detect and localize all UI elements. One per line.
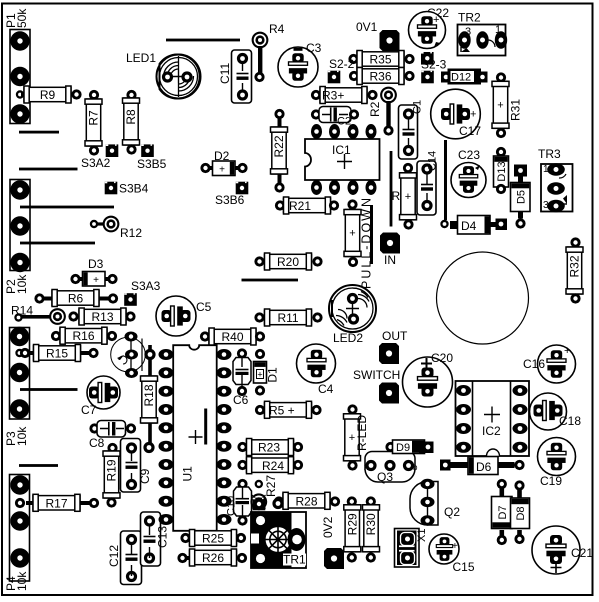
svg-text:TR2: TR2 xyxy=(458,11,481,25)
svg-text:D12: D12 xyxy=(451,72,471,84)
svg-text:C16: C16 xyxy=(523,357,545,371)
svg-text:R-LED: R-LED xyxy=(355,415,369,451)
resistor R28 xyxy=(274,492,340,509)
terminal 0V1 xyxy=(356,20,400,54)
wire link R2 xyxy=(368,87,397,136)
capacitor C22 xyxy=(409,6,450,49)
svg-text:SWITCH: SWITCH xyxy=(353,368,400,382)
capacitor C6 xyxy=(233,348,251,407)
capacitor C13 xyxy=(141,512,170,566)
capacitor C16 xyxy=(523,345,576,383)
IC U1 xyxy=(159,345,232,531)
capacitor C15 xyxy=(429,534,475,574)
big blank circle xyxy=(437,252,529,344)
diode D5 xyxy=(511,165,531,229)
svg-text:R: R xyxy=(392,189,401,203)
svg-text:D7: D7 xyxy=(497,505,509,519)
resistor R23 xyxy=(237,439,303,456)
IC IC1 xyxy=(305,124,380,195)
potentiometer P1 xyxy=(4,8,30,124)
potentiometer P3 xyxy=(4,327,30,446)
svg-text:C14: C14 xyxy=(427,151,439,171)
capacitor C21 xyxy=(532,526,593,574)
svg-text:LED2: LED2 xyxy=(333,331,363,345)
svg-text:OUT: OUT xyxy=(382,329,408,343)
capacitor C20 xyxy=(403,351,454,407)
capacitor C9 xyxy=(121,439,153,493)
svg-text:R17: R17 xyxy=(45,497,67,511)
capacitor C18 xyxy=(530,393,582,430)
svg-text:C4: C4 xyxy=(318,382,334,396)
resistor R15 xyxy=(20,345,99,362)
transistor Q1 xyxy=(111,332,146,379)
svg-text:C1: C1 xyxy=(412,100,424,114)
svg-text:R20: R20 xyxy=(277,255,299,269)
svg-text:S3B4: S3B4 xyxy=(119,182,149,196)
svg-text:C2: C2 xyxy=(337,116,351,128)
capacitor C17 xyxy=(431,89,482,139)
svg-text:+: + xyxy=(257,370,262,380)
diode D9 xyxy=(385,440,433,454)
svg-text:R29: R29 xyxy=(345,513,359,535)
trimmer pad R27 xyxy=(250,475,278,511)
transistor Q2 xyxy=(410,479,460,526)
svg-text:TR1: TR1 xyxy=(283,553,306,567)
svg-text:R9: R9 xyxy=(40,88,56,102)
svg-text:R22: R22 xyxy=(272,135,286,157)
resistor R9 xyxy=(21,86,82,103)
transistor TR2 xyxy=(458,11,508,56)
svg-text:IN: IN xyxy=(384,253,396,267)
svg-text:R13: R13 xyxy=(91,310,113,324)
resistor R8 xyxy=(123,90,140,155)
svg-text:b: b xyxy=(413,463,418,472)
svg-text:Q2: Q2 xyxy=(444,505,460,519)
diode D6 xyxy=(440,457,525,475)
diode D12 xyxy=(441,69,488,85)
wire below P1 xyxy=(19,131,59,134)
svg-text:R16: R16 xyxy=(72,329,94,343)
svg-text:IC2: IC2 xyxy=(482,424,501,438)
resistor R3 xyxy=(311,87,378,104)
svg-text:R5 +: R5 + xyxy=(269,404,295,418)
svg-text:S2-2: S2-2 xyxy=(329,57,355,71)
svg-text:C8: C8 xyxy=(89,436,105,450)
trimmer pad R12 xyxy=(90,216,143,240)
resistor R18 xyxy=(141,345,158,453)
svg-text:C18: C18 xyxy=(559,414,581,428)
svg-text:R25: R25 xyxy=(202,532,224,546)
svg-text:C20: C20 xyxy=(431,351,453,365)
svg-text:R21: R21 xyxy=(289,199,311,213)
svg-text:+: + xyxy=(470,109,476,121)
resistor R1 xyxy=(392,163,417,230)
svg-text:U1: U1 xyxy=(181,466,195,482)
wire from P2 mid xyxy=(20,242,95,245)
wire from P3 xyxy=(20,388,78,391)
svg-text:C19: C19 xyxy=(540,474,562,488)
resistor R31 xyxy=(492,72,523,138)
capacitor C2 xyxy=(311,107,359,128)
svg-text:R7: R7 xyxy=(87,110,101,126)
transistor TR3 xyxy=(538,147,573,212)
diode D3 xyxy=(70,257,117,286)
svg-text:D8: D8 xyxy=(515,506,527,520)
svg-text:S2-3: S2-3 xyxy=(421,58,447,72)
svg-text:0V1: 0V1 xyxy=(356,20,378,34)
capacitor C7 xyxy=(81,376,120,417)
LED LED1 xyxy=(126,51,201,99)
svg-text:R15: R15 xyxy=(46,347,68,361)
svg-text:C5: C5 xyxy=(196,300,212,314)
svg-text:R8: R8 xyxy=(124,109,138,125)
svg-text:D3: D3 xyxy=(88,257,104,271)
svg-text:+: + xyxy=(349,228,355,240)
diode D1 xyxy=(254,349,280,396)
svg-text:D13: D13 xyxy=(496,161,508,181)
svg-text:S3B5: S3B5 xyxy=(137,157,167,171)
svg-text:3: 3 xyxy=(543,200,549,211)
wire from P2 top xyxy=(20,206,114,209)
svg-text:R24: R24 xyxy=(262,459,284,473)
svg-text:Q3: Q3 xyxy=(377,470,393,484)
IC IC2 xyxy=(456,381,530,456)
capacitor C14 xyxy=(417,151,439,215)
terminal OUT xyxy=(379,329,408,367)
svg-text:+: + xyxy=(405,191,411,203)
svg-text:C3: C3 xyxy=(306,41,322,55)
svg-text:+: + xyxy=(497,100,503,112)
resistor R6 xyxy=(34,290,118,307)
trimmer TR1 xyxy=(251,498,306,568)
svg-text:C15: C15 xyxy=(453,560,475,574)
svg-text:D6: D6 xyxy=(476,460,492,474)
terminal IN xyxy=(380,233,400,268)
svg-text:R30: R30 xyxy=(364,513,378,535)
resistor R25 xyxy=(180,530,246,547)
svg-text:x: x xyxy=(364,463,368,472)
svg-text:R36: R36 xyxy=(369,70,391,84)
svg-text:C23: C23 xyxy=(458,148,480,162)
pad S3B5 xyxy=(137,144,167,171)
resistor R36 xyxy=(349,68,415,85)
capacitor C10 xyxy=(226,479,252,526)
pads S2-3 xyxy=(421,52,447,83)
pad end of wire xyxy=(440,220,448,228)
resistor R30 xyxy=(363,496,380,562)
svg-text:R19: R19 xyxy=(105,459,119,481)
capacitor C23 xyxy=(451,148,486,198)
svg-text:50k: 50k xyxy=(15,8,29,28)
resistor R17 xyxy=(15,494,99,511)
svg-text:TR3: TR3 xyxy=(538,147,561,161)
capacitor C11 xyxy=(218,50,252,103)
transistor Q3 xyxy=(364,452,418,485)
svg-text:C21: C21 xyxy=(571,546,593,560)
diode D4 xyxy=(450,216,507,235)
capacitor C4 xyxy=(297,344,336,396)
pad S3A3 xyxy=(124,279,160,306)
svg-text:S3A2: S3A2 xyxy=(81,156,111,170)
svg-text:R27: R27 xyxy=(264,475,278,497)
resistor R26 xyxy=(177,549,247,566)
pad S2-2 xyxy=(328,57,355,83)
svg-text:LED1: LED1 xyxy=(126,51,156,65)
capacitor C3 xyxy=(278,41,322,87)
resistor R5 xyxy=(255,401,322,418)
svg-text:10k: 10k xyxy=(15,426,29,446)
svg-text:R6: R6 xyxy=(68,292,84,306)
svg-text:C13: C13 xyxy=(156,526,170,548)
svg-text:R26: R26 xyxy=(202,551,224,565)
resistor R40 xyxy=(200,328,265,345)
wire above P2 xyxy=(19,168,78,171)
wire vertical near pull-down xyxy=(370,205,373,264)
svg-text:C9: C9 xyxy=(138,468,152,484)
capacitor C8 xyxy=(89,421,136,451)
LED LED2 xyxy=(329,285,376,345)
diode D8 xyxy=(511,480,530,544)
resistor R7 xyxy=(85,90,102,156)
resistor R32 xyxy=(566,237,583,303)
capacitor C19 xyxy=(538,438,576,489)
potentiometer P2 xyxy=(4,180,30,295)
svg-text:+: + xyxy=(93,275,99,286)
svg-text:D1: D1 xyxy=(266,367,280,383)
svg-text:IC1: IC1 xyxy=(332,143,351,157)
svg-text:R3+: R3+ xyxy=(322,89,344,103)
svg-text:C7: C7 xyxy=(81,403,97,417)
svg-text:D4: D4 xyxy=(461,219,477,233)
pad S3A2 xyxy=(81,144,118,170)
wire below R20 xyxy=(242,279,299,282)
svg-text:C12: C12 xyxy=(107,545,121,567)
terminal 0V2 xyxy=(321,516,344,572)
svg-text:C11: C11 xyxy=(218,63,232,84)
resistor R13 xyxy=(68,308,135,325)
resistor R11 xyxy=(254,309,322,326)
svg-text:R35: R35 xyxy=(369,53,391,67)
svg-text:+: + xyxy=(433,14,439,26)
svg-text:D5: D5 xyxy=(516,190,528,204)
svg-text:10k: 10k xyxy=(15,274,29,294)
resistor R20 xyxy=(254,253,322,270)
svg-text:S3B6: S3B6 xyxy=(215,193,245,207)
svg-text:R23: R23 xyxy=(258,441,280,455)
svg-text:R31: R31 xyxy=(509,99,523,121)
diode D13 xyxy=(494,147,509,194)
svg-text:+: + xyxy=(564,345,570,357)
svg-text:0V2: 0V2 xyxy=(321,516,335,538)
wire link R4 xyxy=(252,22,285,82)
resistor R35 xyxy=(348,51,414,68)
capacitor C1 xyxy=(399,100,424,159)
diode D2 xyxy=(200,149,247,176)
svg-text:R18: R18 xyxy=(142,384,156,406)
resistor R22 xyxy=(271,109,288,193)
svg-text:C10: C10 xyxy=(226,496,238,516)
svg-text:+: + xyxy=(452,541,458,552)
svg-text:R2: R2 xyxy=(368,101,382,117)
svg-text:X1: X1 xyxy=(416,529,428,542)
pad S3B6 xyxy=(215,182,248,207)
capacitor C5 xyxy=(156,296,212,336)
svg-text:+: + xyxy=(219,165,225,176)
potentiometer P4 xyxy=(4,475,30,592)
svg-text:R32: R32 xyxy=(568,255,582,277)
capacitor C12 xyxy=(107,531,142,585)
pad S3B4 xyxy=(105,182,149,196)
svg-text:R11: R11 xyxy=(277,311,298,325)
svg-text:R12: R12 xyxy=(120,226,142,240)
svg-text:1: 1 xyxy=(543,164,549,175)
wire above P4 xyxy=(19,464,58,467)
resistor R29 xyxy=(344,496,361,562)
resistor R24 xyxy=(237,457,303,474)
diode D7 xyxy=(492,479,513,545)
crystal X1 xyxy=(395,529,429,568)
svg-text:R28: R28 xyxy=(295,495,317,509)
svg-text:S3A3: S3A3 xyxy=(131,279,161,293)
resistor R-LED xyxy=(344,404,370,470)
terminal SWITCH xyxy=(353,368,400,407)
svg-text:R40: R40 xyxy=(221,330,243,344)
resistor R19 xyxy=(103,443,120,508)
resistor PULL-DOWN xyxy=(344,196,374,289)
svg-text:C17: C17 xyxy=(459,124,481,138)
svg-text:10k: 10k xyxy=(15,571,29,591)
svg-text:R4: R4 xyxy=(269,22,285,36)
wire vertical right of IC1 xyxy=(390,151,393,227)
svg-text:D9: D9 xyxy=(396,442,410,454)
resistor R21 xyxy=(275,197,339,214)
wire vertical right of C14 xyxy=(444,140,447,220)
wire top LED1 to C11 xyxy=(166,39,240,42)
wire R14 xyxy=(11,304,66,325)
svg-text:C6: C6 xyxy=(233,393,249,407)
resistor R16 xyxy=(51,327,117,344)
